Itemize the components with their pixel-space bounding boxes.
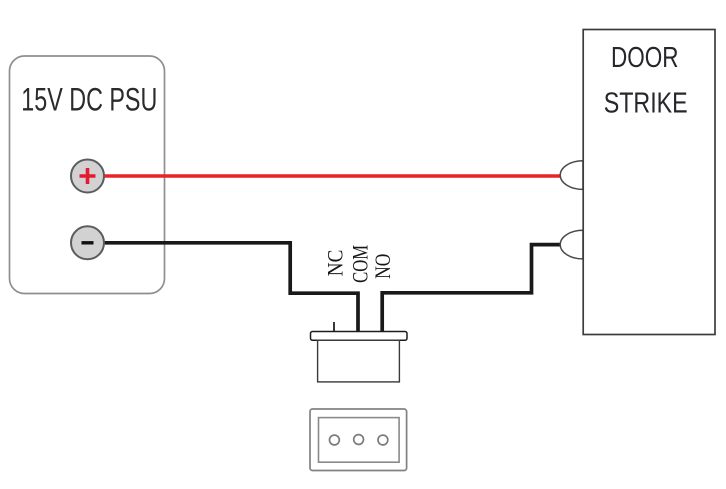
wire black (- to relay COM) (100, 243, 358, 333)
plus symbol (80, 168, 96, 184)
terminal block outer (310, 409, 407, 471)
terminal block hole 1 (330, 435, 340, 445)
relay body (318, 340, 400, 382)
terminal - (negative) (71, 226, 104, 259)
svg-text:NO: NO (370, 254, 395, 279)
wire red (+ to door strike) (100, 174, 562, 178)
svg-text:COM: COM (348, 245, 373, 283)
wire black (relay NO to door strike) (382, 245, 562, 333)
svg-text:NC: NC (323, 250, 348, 277)
PSU box (10, 56, 165, 294)
door strike connector oval bottom (560, 230, 583, 259)
terminal block hole 2 (354, 435, 364, 445)
minus symbol (82, 241, 94, 244)
terminal block inner (319, 418, 400, 463)
svg-text:DOOR: DOOR (611, 42, 679, 74)
relay pin NC stub (333, 322, 335, 332)
door strike connector oval top (560, 161, 583, 190)
relay top plate (311, 332, 408, 341)
terminal block hole 3 (378, 435, 388, 445)
svg-text:15V DC PSU: 15V DC PSU (21, 81, 157, 117)
door strike box (583, 30, 715, 335)
svg-text:STRIKE: STRIKE (604, 88, 688, 120)
terminal + (positive) (71, 160, 104, 193)
